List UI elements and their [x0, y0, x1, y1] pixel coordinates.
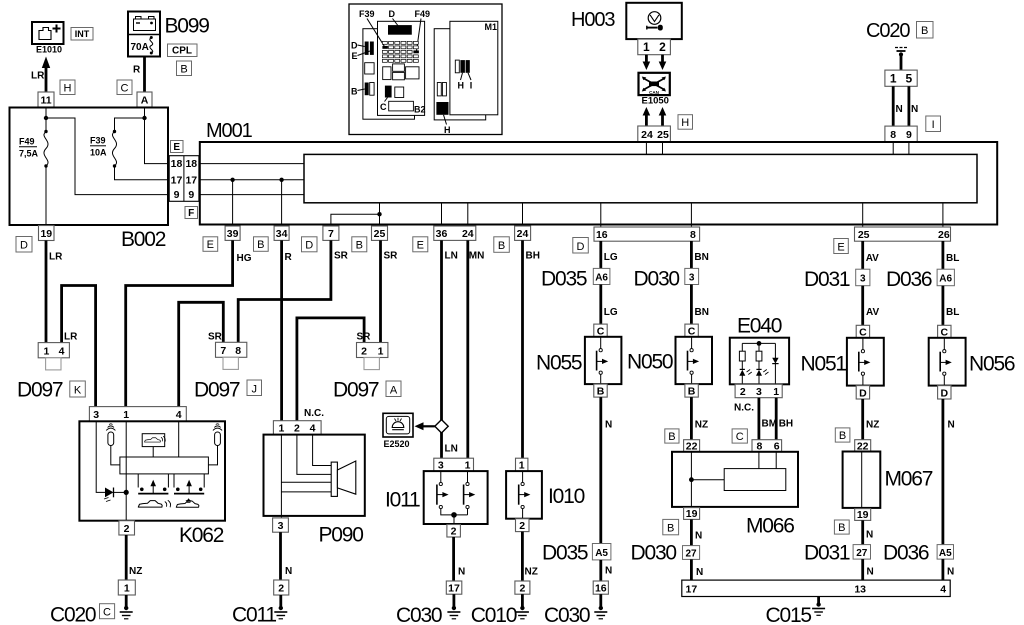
wire SR D097J pin7 to K062 pin4 — [179, 302, 224, 406]
svg-text:BH: BH — [526, 251, 540, 262]
svg-text:E: E — [417, 240, 424, 252]
svg-text:N: N — [605, 566, 612, 577]
svg-text:4: 4 — [940, 584, 946, 596]
svg-text:D030: D030 — [634, 268, 680, 291]
wire F49 output to pin 19 — [45, 166, 47, 226]
immobilizer unit H003 — [626, 3, 682, 39]
wire SR D097A pin2 to P090 pin2 — [297, 318, 364, 421]
inset fuse F39 highlighted — [382, 46, 388, 49]
wire F39 output to row 17 — [115, 166, 170, 180]
svg-text:B: B — [597, 386, 605, 398]
svg-text:B: B — [839, 430, 846, 442]
svg-text:22: 22 — [857, 440, 869, 452]
svg-text:D: D — [20, 240, 28, 252]
connector box 3 D030 — [685, 268, 699, 284]
wire LR arrow to E1010 — [42, 57, 50, 93]
arrow to E2520 — [415, 422, 435, 430]
svg-text:8: 8 — [890, 129, 896, 141]
svg-text:N055: N055 — [536, 352, 582, 375]
M066 pin 19 — [684, 508, 700, 521]
svg-text:34: 34 — [276, 228, 288, 240]
connector D097 K pins 1 4 — [38, 343, 69, 370]
svg-text:H: H — [458, 81, 465, 91]
svg-text:A: A — [390, 384, 398, 396]
svg-text:E1050: E1050 — [642, 96, 669, 107]
label box A — [386, 381, 401, 397]
inset label F39 with leader — [359, 9, 385, 47]
relay M067 box — [843, 452, 881, 508]
svg-text:B: B — [667, 523, 674, 535]
svg-text:C: C — [597, 325, 605, 337]
svg-text:F49: F49 — [415, 9, 431, 19]
connector box 27 D030 — [683, 546, 700, 560]
svg-text:C: C — [688, 325, 696, 337]
label box E at B002-M001 junction — [171, 141, 184, 154]
svg-text:I011: I011 — [385, 489, 420, 512]
wire from pin A to fuse F39 — [144, 107, 146, 118]
svg-text:P090: P090 — [319, 524, 364, 547]
I011 left switch — [437, 471, 468, 515]
svg-text:D036: D036 — [886, 268, 932, 291]
wire NZ I010 to ground pin — [521, 532, 524, 581]
label box B under pin 34 — [254, 237, 269, 252]
switch N051 pin C — [856, 325, 869, 338]
svg-text:LN: LN — [445, 251, 458, 262]
svg-text:D: D — [305, 240, 313, 252]
battery E1010 — [32, 22, 64, 44]
inset fuse F49 highlighted — [413, 50, 419, 53]
wire N from pin 5 — [908, 86, 911, 126]
label box I — [926, 116, 941, 132]
svg-text:N051: N051 — [801, 353, 847, 376]
svg-text:A: A — [141, 95, 149, 107]
label box B at M066 pin19 — [663, 519, 679, 534]
svg-text:NZ: NZ — [525, 567, 538, 578]
svg-text:BN: BN — [695, 307, 709, 318]
svg-text:E: E — [352, 51, 358, 61]
svg-text:2: 2 — [519, 520, 525, 532]
label box J — [247, 380, 262, 396]
inset label B leader — [351, 87, 365, 97]
svg-text:N: N — [911, 104, 918, 115]
svg-text:C020: C020 — [866, 20, 910, 42]
svg-text:H: H — [681, 117, 689, 129]
stub pin 25r — [862, 203, 864, 227]
N056 switch symbol — [940, 338, 952, 386]
svg-text:B: B — [356, 240, 363, 252]
pin 19 — [39, 226, 55, 241]
wire BM E040 pin3 to M066 pin8 — [758, 398, 761, 440]
svg-text:24: 24 — [462, 228, 474, 240]
svg-text:N.C.: N.C. — [304, 408, 324, 419]
svg-text:LG: LG — [604, 252, 618, 263]
svg-text:I: I — [470, 81, 473, 91]
svg-text:I: I — [932, 119, 935, 131]
inset module M1 body — [450, 21, 498, 115]
horn P090 pins 1 2 4 — [273, 421, 321, 435]
svg-text:HG: HG — [237, 253, 252, 264]
stub pin 24 — [467, 203, 469, 226]
wire R from B099 — [143, 57, 146, 93]
svg-text:8: 8 — [690, 229, 696, 241]
M066 inner unit — [724, 469, 786, 491]
branch wire to row 9 — [46, 118, 169, 195]
svg-text:39: 39 — [227, 228, 239, 240]
wire BN to N050 — [690, 285, 693, 325]
label box B — [177, 61, 192, 76]
svg-text:19: 19 — [686, 508, 698, 520]
svg-text:SR: SR — [384, 251, 399, 262]
svg-text:LN: LN — [445, 444, 458, 455]
svg-text:SR: SR — [334, 251, 349, 262]
wire BL pin26 to D036 A6 — [942, 241, 945, 269]
svg-text:C015: C015 — [766, 604, 812, 625]
I011 pin 2 — [447, 525, 461, 538]
wire row 17 inside M001 — [199, 179, 304, 181]
svg-text:F49: F49 — [19, 137, 35, 147]
svg-text:D031: D031 — [804, 268, 850, 291]
svg-text:6: 6 — [774, 440, 780, 452]
M066 wire pin22 to pin19 — [690, 452, 692, 508]
inset label F49 with leader — [415, 9, 431, 51]
stub pin 16 — [600, 203, 602, 227]
K062 wire pin4 to unit — [178, 421, 180, 457]
battery fuse box B099 — [128, 12, 160, 57]
inset label C leader — [380, 98, 388, 113]
pin 24b — [515, 226, 531, 240]
inset H-I connector bars — [455, 60, 470, 73]
svg-text:F39: F39 — [359, 9, 375, 19]
svg-text:25: 25 — [858, 229, 870, 241]
node on pin A wire — [142, 116, 146, 120]
svg-text:N: N — [867, 567, 874, 578]
P090 wire pin4 — [313, 435, 332, 466]
svg-text:CPL: CPL — [172, 46, 192, 57]
wire N M067 pin19 to D031 27 — [861, 520, 864, 544]
label box E under pin 39 — [203, 237, 218, 252]
svg-text:E: E — [173, 142, 180, 153]
svg-text:7: 7 — [220, 345, 226, 357]
svg-text:SR: SR — [357, 332, 372, 343]
label box C — [100, 604, 115, 619]
svg-text:J: J — [251, 383, 257, 395]
node on F49 input — [44, 116, 48, 120]
M001 inner unit box — [304, 154, 977, 202]
label box F — [185, 207, 198, 220]
svg-text:9: 9 — [174, 189, 180, 201]
svg-text:A6: A6 — [939, 274, 952, 285]
M066 wire pin8 — [758, 452, 760, 469]
E040 internal bus — [742, 341, 775, 346]
switch N051 pin D — [856, 386, 869, 400]
svg-text:F39: F39 — [90, 136, 106, 146]
svg-text:8: 8 — [235, 345, 241, 357]
pins 16 8 — [594, 227, 700, 241]
siren module M066 box — [672, 452, 798, 507]
svg-text:B099: B099 — [165, 15, 210, 38]
svg-text:AV: AV — [866, 253, 879, 264]
svg-text:N: N — [696, 567, 703, 578]
ground connector bar C015 pins 17 13 4 — [682, 580, 950, 596]
svg-text:A5: A5 — [595, 548, 608, 559]
ceiling lamp E2520 — [383, 413, 413, 437]
connector box 3 D031 — [856, 269, 870, 286]
inset label D leader — [351, 41, 365, 51]
svg-text:E1010: E1010 — [36, 45, 62, 55]
K062 control unit bar — [120, 457, 208, 474]
svg-text:A5: A5 — [939, 548, 952, 559]
label box B at M067 pin19 — [834, 520, 849, 534]
svg-text:2: 2 — [361, 345, 367, 357]
label box B at M067 pin22 — [835, 428, 850, 442]
CAN network node E1050 — [639, 73, 670, 95]
ground pin 1 of C020 C — [118, 580, 135, 595]
pin 25 — [372, 226, 388, 240]
svg-text:D035: D035 — [541, 268, 587, 291]
svg-text:B: B — [921, 25, 928, 37]
wire N N055 to D035 A5 — [599, 397, 602, 543]
inset label H leader — [458, 73, 465, 91]
M066 node and branch — [689, 477, 724, 482]
svg-text:C: C — [380, 102, 387, 112]
svg-text:C030: C030 — [396, 604, 442, 625]
svg-text:B: B — [498, 240, 505, 252]
connector D097 A pins 2 1 — [357, 343, 388, 370]
wire to fuse F39 — [115, 118, 145, 132]
svg-text:7: 7 — [328, 228, 334, 240]
svg-text:D: D — [577, 241, 585, 253]
svg-text:D097: D097 — [194, 378, 240, 401]
svg-text:3: 3 — [756, 386, 762, 398]
inset location diagram frame — [349, 4, 502, 135]
M066 pin 22 — [684, 440, 700, 453]
ground pin 2 of C010 — [515, 581, 530, 595]
svg-text:1: 1 — [123, 409, 129, 421]
inset label H2 leader — [444, 115, 451, 135]
svg-text:N: N — [285, 566, 292, 577]
stub pin 9 top — [908, 142, 910, 154]
svg-text:N: N — [695, 531, 702, 542]
P090 pin 3 — [273, 518, 289, 532]
svg-text:I010: I010 — [548, 485, 585, 508]
alarm module K062 box — [79, 421, 225, 520]
svg-text:B: B — [257, 239, 264, 251]
svg-text:H003: H003 — [571, 9, 615, 31]
svg-text:3: 3 — [438, 460, 444, 472]
M067 wire pin22 to pin19 — [861, 452, 863, 509]
wire N I011 to ground pin — [452, 537, 455, 581]
label box B at M066 pin22 — [665, 429, 679, 443]
wire BL to N056 — [942, 286, 945, 326]
pins 1 5 of C020 — [885, 70, 917, 86]
svg-text:LG: LG — [604, 307, 618, 318]
door switches I011 pins 3 1 — [434, 458, 474, 471]
label box D — [16, 237, 32, 253]
label box B under pin 24 — [494, 237, 510, 253]
wire N D036 A5 to bar pin4 — [942, 559, 945, 580]
svg-text:N: N — [947, 567, 954, 578]
svg-text:8: 8 — [756, 440, 762, 452]
arrow down from pin 1 — [643, 55, 651, 70]
pin 11 — [38, 92, 54, 107]
label box E under pin 25r — [834, 239, 849, 254]
E040 pins 2 3 1 — [735, 384, 782, 398]
svg-text:E2520: E2520 — [384, 439, 410, 449]
switch N050 pin B — [685, 384, 698, 398]
svg-text:16: 16 — [595, 583, 607, 595]
inset connector H black square — [436, 102, 448, 115]
svg-text:D030: D030 — [631, 542, 677, 565]
alarm module K062 pins 3 1 4 — [89, 407, 186, 422]
svg-text:2: 2 — [451, 525, 457, 537]
P090 speaker — [331, 461, 356, 496]
wire MN pin24 to I011 pin1 — [466, 240, 469, 458]
wire SR pin7 to D097J pin8 — [238, 240, 331, 342]
K062 siren car icon — [138, 500, 170, 507]
inset label I leader — [468, 73, 472, 91]
svg-text:M1: M1 — [485, 22, 498, 32]
svg-text:1: 1 — [519, 460, 525, 472]
ground symbol C020 top — [895, 48, 907, 71]
svg-text:N: N — [458, 567, 465, 578]
wire NZ N051 to M067 pin22 — [861, 399, 864, 440]
svg-text:LR: LR — [49, 252, 63, 263]
svg-text:17: 17 — [686, 584, 698, 596]
svg-text:C011: C011 — [232, 604, 276, 625]
svg-text:1: 1 — [43, 345, 49, 357]
label box C — [117, 80, 132, 95]
pin grid 18/17/9 between B002 and M001 — [169, 156, 199, 202]
wire N M066 pin19 to D030 27 — [690, 519, 693, 545]
svg-text:NZ: NZ — [695, 420, 708, 431]
door switches I011 box — [424, 471, 488, 524]
P090 wire pin1 — [280, 435, 282, 518]
svg-text:22: 22 — [686, 440, 698, 452]
svg-text:D031: D031 — [804, 542, 850, 565]
svg-text:1: 1 — [773, 386, 779, 398]
svg-text:M066: M066 — [746, 515, 794, 538]
svg-text:D036: D036 — [883, 542, 929, 565]
svg-text:3: 3 — [278, 520, 284, 532]
svg-text:1: 1 — [465, 460, 471, 472]
inset fusebox B2 body — [378, 21, 425, 115]
K062 pin 2 — [119, 521, 135, 535]
svg-text:25: 25 — [374, 228, 386, 240]
svg-text:BN: BN — [694, 252, 708, 263]
stub pin 25 top — [662, 142, 664, 154]
I011 common node — [451, 512, 457, 524]
svg-text:C: C — [103, 607, 111, 619]
switch N051 box — [847, 338, 884, 386]
switch N055 box — [585, 337, 622, 384]
K062 diode indicator — [104, 488, 126, 502]
wire LR pin19 to D097K pin1 — [45, 241, 48, 343]
K062 relay contact left — [138, 474, 168, 494]
M067 pin 22 — [855, 440, 871, 453]
K062 left antenna — [106, 424, 120, 465]
svg-text:SR: SR — [208, 332, 223, 343]
svg-text:LR: LR — [31, 71, 45, 82]
ground symbol C020 C — [120, 595, 133, 619]
wire NZ K062 pin2 to ground pin — [125, 535, 128, 580]
svg-text:C: C — [121, 83, 129, 95]
svg-text:AV: AV — [866, 307, 879, 318]
pin 39 — [225, 226, 240, 240]
K062 wire pin3 to diode — [96, 421, 105, 492]
N055 switch symbol — [597, 337, 609, 384]
svg-text:D: D — [351, 41, 358, 51]
inset connector E black bar — [370, 42, 374, 55]
svg-text:3: 3 — [860, 274, 866, 285]
inset bottom socket — [389, 101, 414, 111]
led unit E040 box — [730, 338, 789, 385]
svg-text:D: D — [389, 9, 396, 19]
stub pin 24b — [522, 203, 524, 226]
svg-text:2: 2 — [124, 523, 130, 535]
ground symbol C010 — [516, 594, 529, 619]
wire LG to N055 — [599, 285, 602, 325]
svg-text:C: C — [736, 431, 744, 443]
svg-text:2: 2 — [278, 583, 284, 595]
arrow up to E1050 from pin 24 — [643, 107, 651, 126]
arrow down from pin 2 — [659, 55, 667, 70]
wire BH E040 pin1 to M066 pin6 — [775, 398, 778, 440]
svg-text:17: 17 — [171, 174, 183, 186]
svg-text:B: B — [180, 64, 187, 76]
svg-text:M067: M067 — [885, 468, 933, 491]
svg-text:3: 3 — [93, 409, 99, 421]
body computer M001 outer box — [200, 142, 997, 225]
svg-text:F: F — [188, 208, 194, 219]
I011 right switch — [464, 471, 476, 515]
wire from pin 11 to fuse F49 — [45, 107, 47, 132]
wire BN pin8 to D030 3 — [690, 241, 693, 268]
svg-text:1: 1 — [378, 345, 384, 357]
svg-text:4: 4 — [310, 423, 316, 435]
pins 8 9 of M001 — [885, 126, 917, 142]
svg-text:E040: E040 — [737, 315, 782, 338]
connector box A6 D036 — [937, 269, 954, 286]
svg-text:K062: K062 — [179, 524, 224, 547]
ground pin 16 of C030b — [593, 581, 608, 595]
branch wire pin A to row 18 — [145, 118, 170, 164]
inset relay D black block — [388, 25, 412, 35]
inset label E leader — [352, 51, 370, 61]
K062 right antenna — [208, 424, 222, 465]
svg-text:R: R — [133, 65, 141, 76]
svg-text:1: 1 — [643, 40, 650, 54]
svg-text:17: 17 — [185, 174, 197, 186]
pins 36 24 — [434, 226, 476, 240]
label box E under pin 36 — [413, 237, 428, 252]
switch N055 pin B — [594, 384, 607, 398]
svg-text:LR: LR — [64, 332, 78, 343]
svg-text:19: 19 — [40, 228, 52, 240]
wire N D030 27 to bar pin17 — [690, 559, 693, 580]
svg-text:N050: N050 — [627, 351, 673, 374]
wire row 9 inside M001 — [199, 194, 304, 196]
ground pin 17 of C030 — [446, 581, 462, 595]
E040 led left — [739, 369, 752, 384]
M066 wire pin6 — [775, 452, 777, 469]
svg-text:D: D — [941, 387, 949, 399]
svg-text:13: 13 — [854, 584, 866, 596]
P090 wire pin1 to speaker — [281, 482, 331, 492]
svg-text:BL: BL — [946, 307, 959, 318]
label box H — [60, 80, 75, 95]
label box B top right — [917, 22, 934, 39]
M067 pin 19 — [855, 509, 871, 522]
